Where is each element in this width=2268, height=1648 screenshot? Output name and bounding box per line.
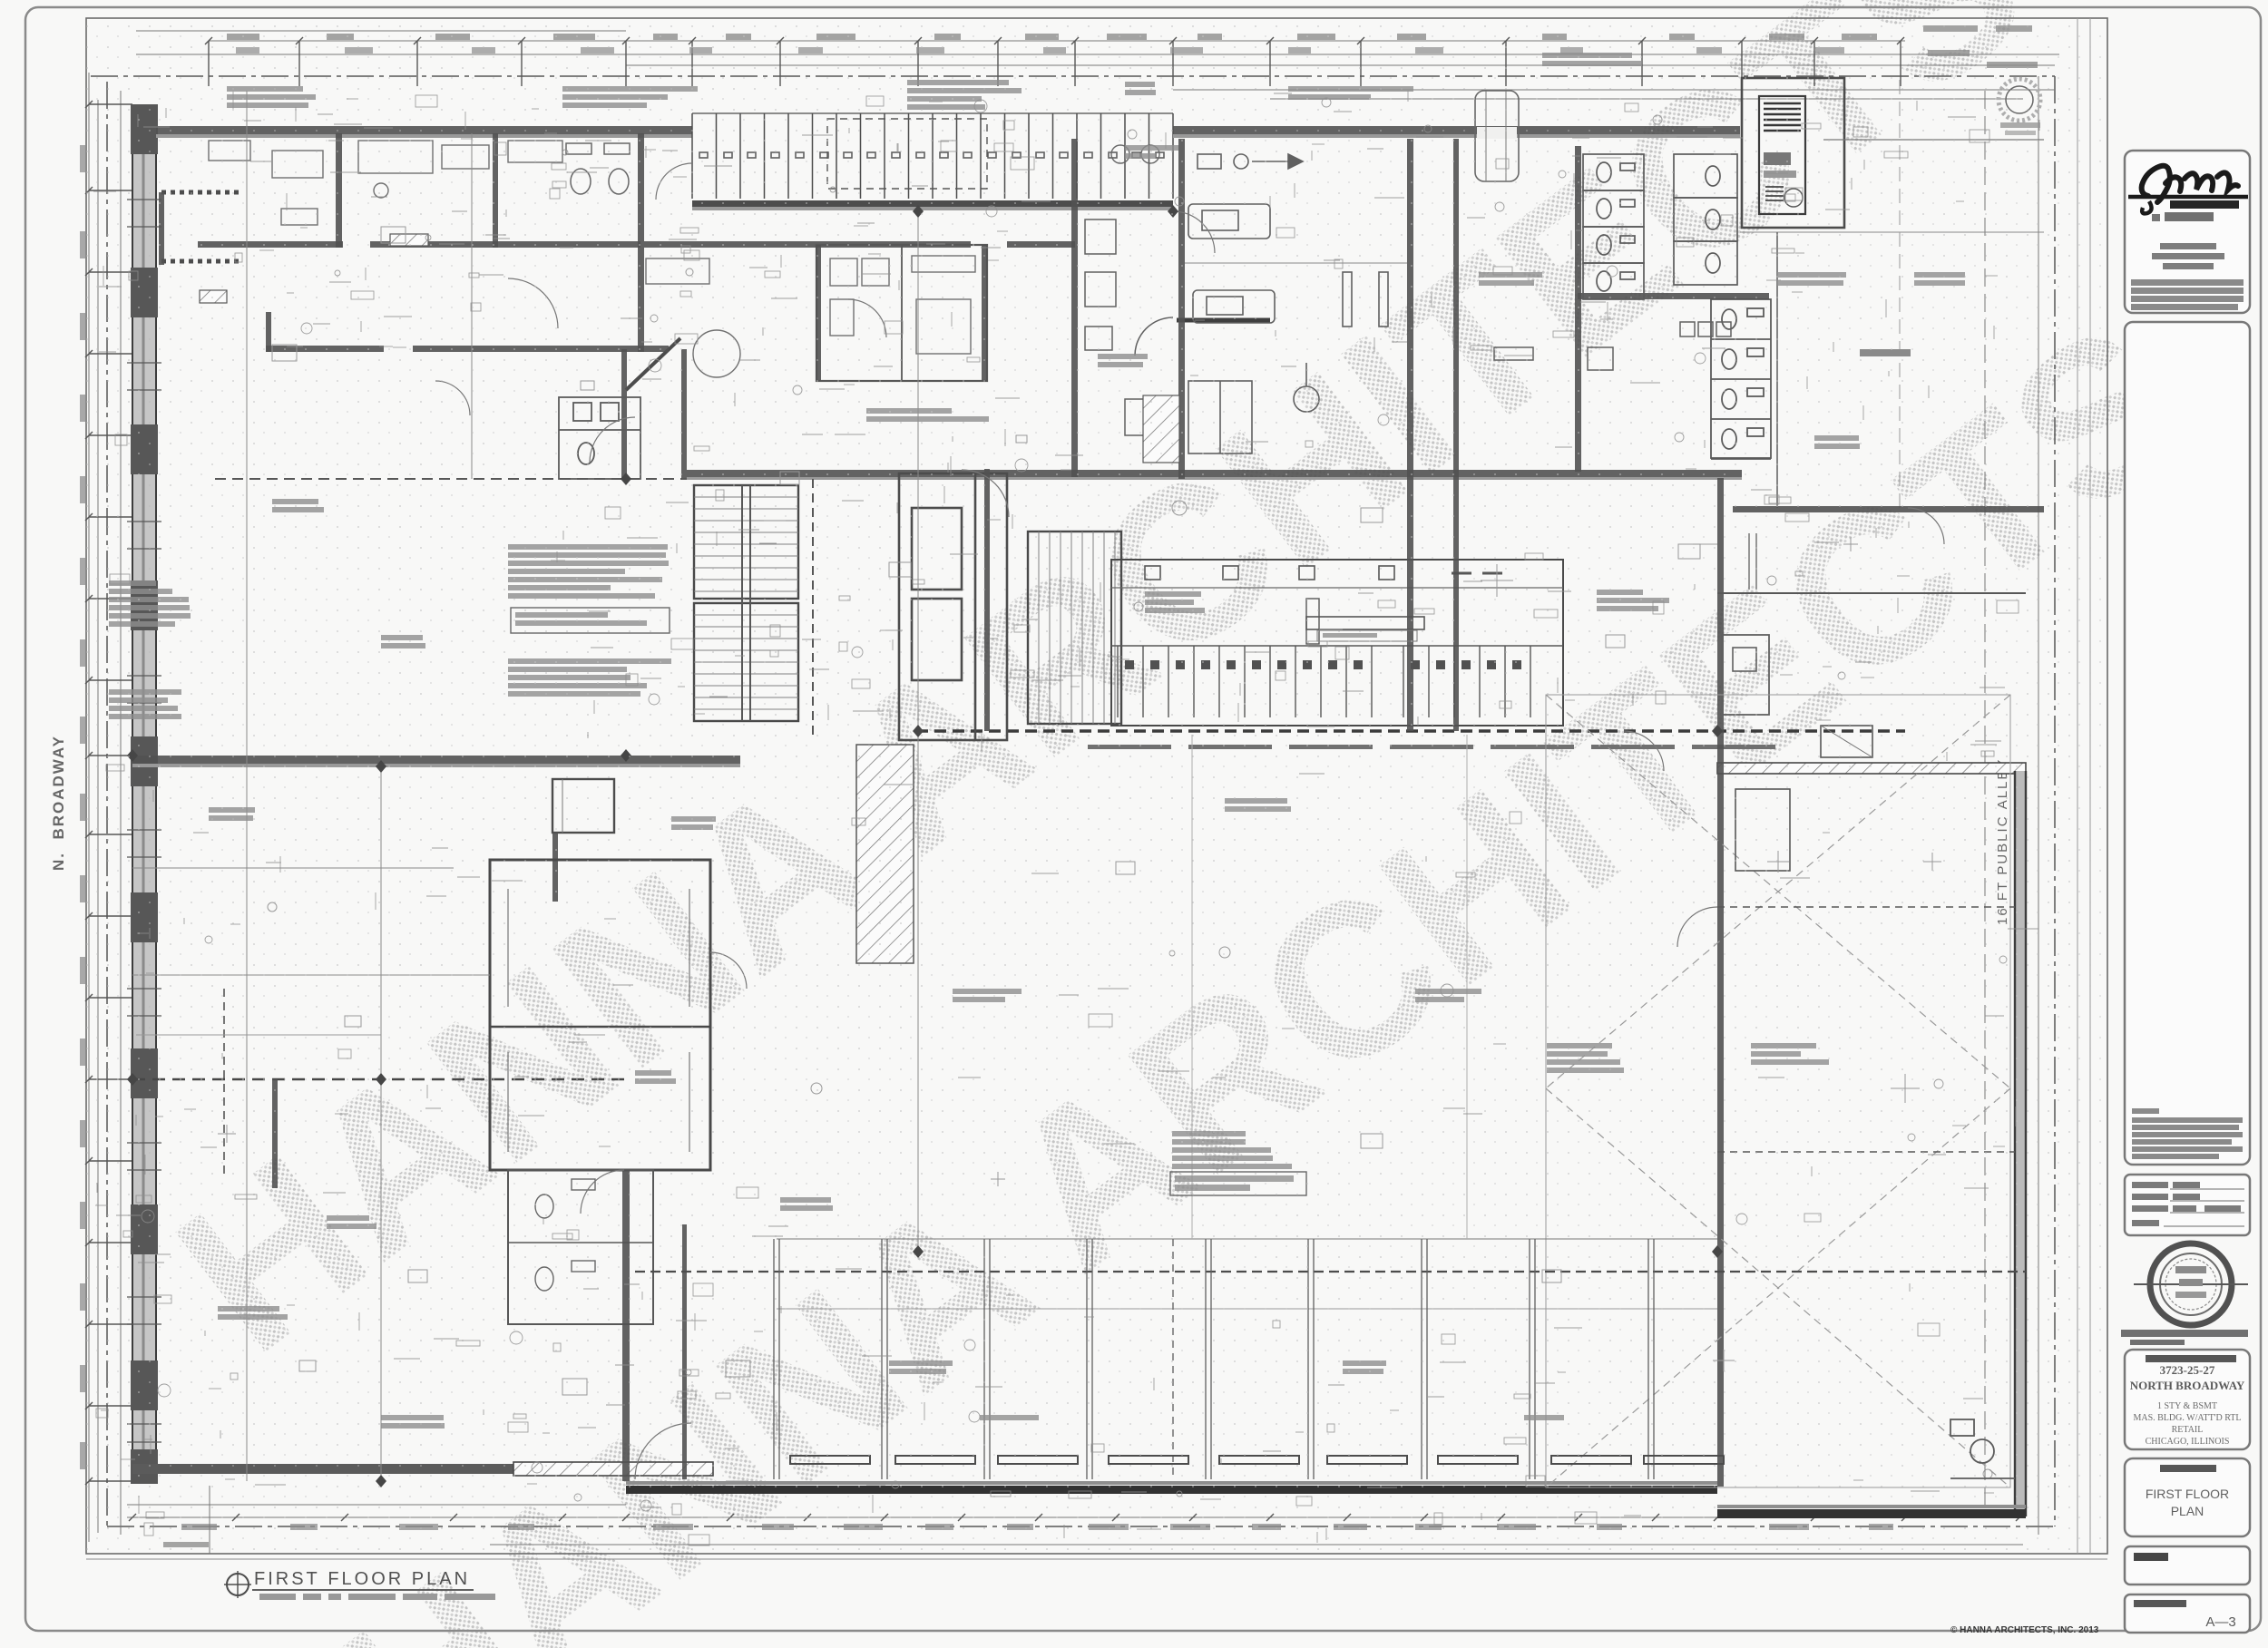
dimension lines bottom — [127, 1505, 2023, 1545]
stair shaft A — [694, 485, 798, 721]
grid v3 — [917, 731, 919, 1252]
notes block stair — [508, 544, 669, 599]
dimension lines top — [136, 31, 2059, 99]
manhole — [2006, 86, 2033, 113]
dimension ticks bottom — [129, 1514, 2023, 1521]
kitchen label — [1145, 591, 1205, 613]
upper-left wall A — [198, 241, 343, 248]
NE vestibule — [1742, 78, 1844, 228]
dimension labels left — [80, 145, 86, 1469]
notes block right — [1547, 1043, 1624, 1073]
dimension ticks left — [85, 101, 132, 1485]
room A fixtures — [646, 256, 975, 377]
gym east wall — [1407, 139, 1413, 731]
fine detail fuzz — [93, 91, 2039, 1546]
top-right margin blobs — [1923, 25, 2038, 68]
ul vertical 5 — [621, 349, 627, 479]
top wall thin extension — [1823, 139, 2044, 141]
parking stall dividers top — [692, 113, 1173, 199]
address lines — [2160, 243, 2216, 249]
right rooms divider — [1733, 506, 2044, 512]
top exterior wall east segment — [1173, 126, 1740, 134]
lower-left vertical wall — [622, 1170, 630, 1481]
east room partitions — [1717, 789, 2015, 1152]
watermark band 2 — [298, 277, 2229, 1648]
tl dotted wall segments — [161, 192, 243, 261]
notes box center — [1170, 1172, 1306, 1195]
left zone dashed line — [132, 1078, 626, 1081]
watermark band 1 — [135, 0, 2066, 1398]
parking dashed box — [827, 119, 987, 189]
dimension lines left — [89, 73, 121, 1542]
garage door slabs — [790, 1456, 1724, 1464]
ml small room — [552, 779, 614, 833]
property line bottom — [107, 1526, 2055, 1527]
notes block stair box — [511, 608, 670, 633]
mid horizontal wall left — [132, 756, 740, 764]
cl divider — [490, 1026, 710, 1028]
center dashed partition — [916, 729, 1905, 732]
notes block 2 — [508, 658, 671, 697]
grid v tl — [246, 91, 248, 1481]
grid h1 — [132, 974, 490, 976]
bottom sill hatched — [513, 1462, 713, 1476]
toilet stall column 2 — [1674, 154, 1737, 285]
reception label — [1317, 630, 1417, 641]
um vertical wall right — [1071, 139, 1078, 477]
dimension ticks top — [205, 37, 1904, 86]
ul vertical 3 — [638, 133, 644, 352]
parking drains — [1111, 145, 1129, 163]
X room outline — [1546, 695, 2010, 1487]
locker west wall — [984, 469, 990, 731]
ul vertical 2 — [493, 133, 498, 248]
notes block center — [1172, 1131, 1292, 1169]
ml dashed vertical — [223, 989, 225, 1179]
ml thin line — [136, 1034, 381, 1036]
ul hatch block 2 — [390, 234, 428, 246]
parking notch top line — [692, 112, 1173, 114]
dimension labels top — [227, 34, 1877, 54]
seal — [2150, 1243, 2232, 1325]
gym west wall — [1178, 139, 1185, 479]
grid v1 — [380, 766, 382, 1481]
gym equipment — [1188, 154, 1388, 453]
title block — [2121, 151, 2250, 1633]
aisle header bars — [1088, 745, 1775, 749]
east jog wall — [1717, 763, 2026, 774]
parking notch bottom wall — [692, 200, 1173, 207]
plan frame inner lines — [2077, 18, 2078, 1554]
ramp hatch — [856, 745, 914, 963]
counter block — [1306, 617, 1424, 629]
property line right — [2054, 76, 2056, 1526]
top wall west hatch shadow — [156, 134, 692, 138]
east dashed grid — [1899, 80, 1901, 508]
top rooms long wall — [644, 241, 1075, 248]
garage top line — [777, 1238, 1717, 1240]
east exterior wall lower — [2015, 771, 2026, 1516]
corridor fixtures mid — [1085, 219, 1173, 435]
west wall window ticks — [127, 200, 161, 1442]
right rooms divider 2 — [1717, 592, 2026, 594]
washroom west wall — [1575, 146, 1581, 472]
ul hatch block — [200, 290, 227, 303]
sheet number box — [2125, 1594, 2250, 1633]
architect box — [2125, 151, 2250, 313]
corridor dashed vertical — [812, 479, 814, 740]
east open room west wall — [1776, 232, 1778, 508]
corridor dashed overhead — [215, 478, 687, 480]
locker dividers — [1111, 646, 1563, 717]
left zone dashes 2 — [132, 867, 454, 869]
SE corner fixture — [1950, 1419, 2015, 1478]
washroom mid wall — [1578, 293, 1769, 299]
top exterior wall west segment — [156, 126, 692, 134]
cl inner lines — [508, 889, 689, 1152]
east open room label — [1860, 349, 1911, 356]
garage mid line — [777, 1308, 1717, 1310]
SE bottom wall — [1717, 1509, 2026, 1518]
right room fixture — [1722, 635, 1769, 715]
main hall north wall — [687, 470, 1742, 477]
property line left — [106, 82, 108, 1526]
tall box paragraph — [2132, 1108, 2243, 1159]
scattered detail marks — [218, 227, 1941, 1395]
column markers — [127, 205, 1723, 1487]
dimension lines right — [1985, 76, 2038, 1535]
garage dashed bay — [1172, 1239, 1174, 1479]
chamfer corner wall — [626, 338, 680, 390]
hanna logo script — [2142, 166, 2238, 202]
ul stub — [266, 312, 271, 352]
stair treads B — [1039, 531, 1115, 724]
locker top squares — [1145, 566, 1502, 580]
stair treads A — [694, 497, 798, 709]
toilet cluster mid — [559, 397, 640, 479]
project box — [2125, 1350, 2250, 1449]
stair A rails — [742, 485, 750, 721]
locker divider squares — [1125, 660, 1521, 669]
storage label — [866, 408, 989, 422]
bottom wall west part — [132, 1464, 513, 1474]
sink row — [1494, 322, 1731, 370]
bottom exterior wall garage front — [626, 1481, 1717, 1494]
line under seal — [2121, 1330, 2248, 1345]
gym mid line — [1185, 262, 1407, 264]
loading box — [1821, 726, 1872, 757]
cl room block — [490, 860, 710, 1170]
ul vertical 6 — [681, 349, 687, 479]
ml wall stub — [552, 833, 558, 902]
X diagonals — [1546, 695, 2010, 1487]
mid shaft — [899, 473, 1007, 740]
garage dashed line — [635, 1271, 2026, 1273]
grid v2 — [917, 211, 919, 731]
revisions box — [2125, 1175, 2250, 1235]
east mid wall — [1717, 478, 1724, 1487]
wheel stops — [699, 152, 1164, 158]
property line top — [91, 75, 2055, 77]
um room block — [816, 245, 987, 381]
stair shaft B — [1028, 531, 1121, 724]
vestibule louvre — [1759, 96, 1805, 214]
um room divider — [901, 245, 903, 381]
door arcs — [435, 163, 1944, 1214]
ul vertical 1 — [336, 133, 342, 248]
vestibule bottom line — [1740, 231, 2044, 233]
license no — [2165, 212, 2214, 221]
hall wall shadow — [687, 477, 1742, 480]
drawing title — [210, 1486, 495, 1600]
east toilet battery — [1711, 299, 1771, 459]
upper-left wall B — [266, 346, 384, 352]
tall box — [2125, 322, 2250, 1165]
west wall piers — [131, 104, 158, 1484]
disclaimer paragraph — [0, 0, 1, 1]
locker top rule — [1111, 587, 1563, 589]
ul toilet fixtures — [566, 143, 630, 194]
ll wall stub — [272, 1079, 278, 1188]
locker room outline — [1111, 560, 1563, 726]
scale box — [2125, 1546, 2250, 1585]
west exterior wall — [132, 104, 156, 1481]
entry vestibule — [1475, 91, 1519, 181]
hall light verticals — [1192, 735, 1467, 1239]
corridor wall — [1453, 139, 1459, 731]
ll partition — [682, 1224, 687, 1479]
hatched block hallway — [1143, 395, 1179, 463]
ll door arc — [635, 1423, 691, 1479]
right shelves — [1749, 533, 1756, 590]
ul kitchen counters — [209, 141, 562, 225]
um vertical wall — [816, 245, 821, 381]
tl corner room walls — [159, 192, 164, 265]
misc labels — [227, 86, 316, 108]
garage bay dividers — [774, 1239, 1654, 1479]
toilet stall column 1 — [1583, 154, 1644, 299]
dimension labels bottom — [181, 1524, 1893, 1530]
sheet title box — [2125, 1458, 2250, 1536]
toilet rooms lower-left — [508, 1170, 653, 1324]
